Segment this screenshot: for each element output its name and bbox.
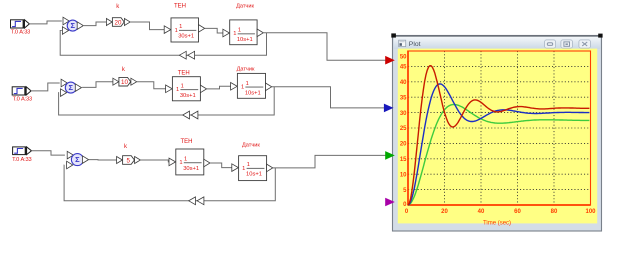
svg-text:10s+1: 10s+1 xyxy=(246,172,262,178)
svg-text:1: 1 xyxy=(242,166,245,172)
plot input arrow 4 (magenta, unconnected) xyxy=(385,198,395,207)
svg-text:1: 1 xyxy=(179,160,182,166)
transfer function sensor (Datchik) 1/(10s+1) (loop 1) xyxy=(223,20,263,45)
svg-text:5: 5 xyxy=(126,157,130,164)
plot window frame xyxy=(393,36,602,232)
plot curve red k=20 xyxy=(408,66,589,205)
svg-text:Датчик: Датчик xyxy=(242,142,260,148)
svg-text:Plot: Plot xyxy=(409,41,421,48)
svg-text:1: 1 xyxy=(184,157,187,163)
svg-text:30s+1: 30s+1 xyxy=(180,93,196,99)
selection handle top-right xyxy=(598,34,602,38)
svg-text:10s+1: 10s+1 xyxy=(237,37,253,43)
feedback wire (loop 2) xyxy=(59,87,275,115)
svg-text:ТЕН: ТЕН xyxy=(181,139,193,145)
svg-text:1: 1 xyxy=(241,85,244,91)
feedback direction arrows (loop 3) xyxy=(189,197,204,205)
plot input arrow 3 (green) xyxy=(385,151,395,160)
svg-text:10s+1: 10s+1 xyxy=(245,90,261,96)
svg-text:Т.0 А:33: Т.0 А:33 xyxy=(12,157,31,163)
svg-text:1: 1 xyxy=(247,162,250,168)
svg-text:1: 1 xyxy=(238,28,241,34)
gain block k=10 (loop 2) xyxy=(113,77,137,86)
svg-text:20: 20 xyxy=(441,209,448,215)
svg-text:ТЕН: ТЕН xyxy=(174,3,186,9)
svg-text:ТЕН: ТЕН xyxy=(178,70,190,76)
transfer function TEN 1/(30s+1) (loop 1) xyxy=(164,18,205,42)
svg-text:15: 15 xyxy=(400,157,407,163)
plot curve green k=5 xyxy=(408,105,589,206)
svg-text:Датчик: Датчик xyxy=(236,3,254,9)
svg-text:Σ: Σ xyxy=(69,83,74,92)
step source block T.0 A:33 (loop 3) xyxy=(13,147,32,155)
wire step to summing junction (loop 1) xyxy=(29,21,62,24)
transfer function sensor (Datchik) 1/(10s+1) (loop 2) xyxy=(231,73,272,98)
y axis labels xyxy=(400,55,407,209)
feedback wire (loop 1) xyxy=(60,31,266,56)
svg-text:45: 45 xyxy=(400,65,407,71)
maximize button xyxy=(561,40,573,48)
svg-text:40: 40 xyxy=(478,209,485,215)
svg-text:35: 35 xyxy=(400,95,407,101)
wire gain to TEN block (loop 1) xyxy=(130,22,164,30)
wire sensor output to plot (loop 3) xyxy=(273,155,387,168)
plot input arrow 2 (blue) xyxy=(384,104,394,113)
feedback direction arrows (loop 1) xyxy=(179,51,194,59)
plot window icon xyxy=(399,40,406,46)
svg-text:25: 25 xyxy=(400,126,407,132)
plot grid xyxy=(408,51,591,205)
plot window title bar xyxy=(394,37,601,49)
plot axes box xyxy=(408,51,591,206)
wire step to summing junction (loop 3) xyxy=(31,151,65,155)
selection handle top-left xyxy=(391,33,396,37)
svg-text:30s+1: 30s+1 xyxy=(178,34,194,40)
summing junction (loop 3) xyxy=(67,151,89,169)
wire sensor output to plot (loop 2) xyxy=(272,87,385,108)
svg-text:Датчик: Датчик xyxy=(237,67,255,73)
svg-text:100: 100 xyxy=(585,209,596,215)
svg-text:1: 1 xyxy=(176,87,179,93)
svg-text:Т.0 А:33: Т.0 А:33 xyxy=(11,30,30,36)
plot input arrow 1 (red) xyxy=(385,56,395,65)
svg-text:50: 50 xyxy=(400,55,407,61)
svg-text:1: 1 xyxy=(181,83,184,89)
wire summing junction to gain (loop 3) xyxy=(89,159,117,161)
svg-text:Time (sec): Time (sec) xyxy=(483,221,511,227)
wire TEN to sensor block (loop 3) xyxy=(210,163,232,168)
plot window top edge xyxy=(393,35,602,37)
summing junction (loop 2) xyxy=(61,79,82,96)
svg-text:20: 20 xyxy=(115,19,122,26)
step source block T.0 A:33 (loop 1) xyxy=(11,20,30,28)
svg-text:1: 1 xyxy=(179,24,182,30)
x axis labels xyxy=(405,209,596,215)
svg-text:30s+1: 30s+1 xyxy=(183,166,199,172)
transfer function TEN 1/(30s+1) (loop 2) xyxy=(166,77,207,101)
svg-text:10: 10 xyxy=(121,79,128,86)
transfer function sensor (Datchik) 1/(10s+1) (loop 3) xyxy=(232,156,273,181)
transfer function TEN 1/(30s+1) (loop 3) xyxy=(169,149,210,175)
svg-text:Σ: Σ xyxy=(75,155,80,164)
svg-text:Σ: Σ xyxy=(70,21,75,30)
summing junction (loop 1) xyxy=(62,17,83,34)
svg-text:Т.0 А:33: Т.0 А:33 xyxy=(13,97,32,103)
svg-text:80: 80 xyxy=(551,209,558,215)
minimize button xyxy=(545,40,556,48)
gain block k=5 (loop 3) xyxy=(117,156,141,165)
svg-text:20: 20 xyxy=(400,142,407,148)
wire TEN to sensor block (loop 2) xyxy=(207,86,231,89)
wire summing junction to gain (loop 2) xyxy=(82,82,113,88)
plot client area xyxy=(398,49,597,224)
svg-text:1: 1 xyxy=(246,81,249,87)
wire gain to TEN block (loop 3) xyxy=(140,160,169,162)
wire sensor output to plot (loop 1) xyxy=(263,33,386,60)
plot curve blue k=10 xyxy=(408,84,589,205)
wire summing junction to gain (loop 1) xyxy=(84,22,107,26)
step source block T.0 A:33 (loop 2) xyxy=(12,87,31,95)
svg-text:30: 30 xyxy=(400,111,407,117)
svg-text:10: 10 xyxy=(400,172,407,178)
wire gain to TEN block (loop 2) xyxy=(137,82,166,89)
close button xyxy=(579,40,591,48)
svg-text:60: 60 xyxy=(514,209,521,215)
feedback wire (loop 3) xyxy=(64,165,275,201)
gain block k=20 (loop 1) xyxy=(106,18,130,27)
wire TEN to sensor block (loop 1) xyxy=(205,28,223,33)
wire step to summing junction (loop 2) xyxy=(31,83,60,91)
feedback direction arrows (loop 2) xyxy=(183,111,198,119)
svg-text:40: 40 xyxy=(400,80,407,86)
